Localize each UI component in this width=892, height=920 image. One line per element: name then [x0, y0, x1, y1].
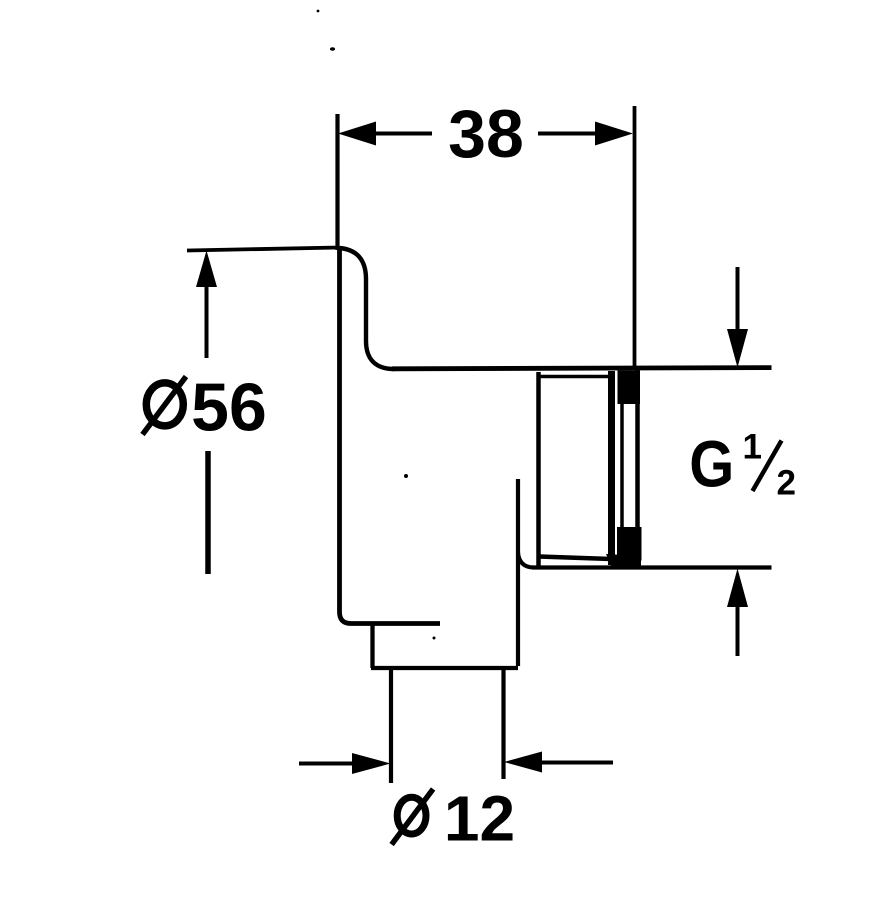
svg-text:12: 12 [444, 783, 515, 855]
svg-text:38: 38 [448, 96, 524, 172]
svg-text:1: 1 [743, 428, 762, 467]
svg-text:2: 2 [777, 464, 796, 503]
svg-text:56: 56 [191, 370, 267, 446]
svg-text:G: G [689, 426, 734, 500]
